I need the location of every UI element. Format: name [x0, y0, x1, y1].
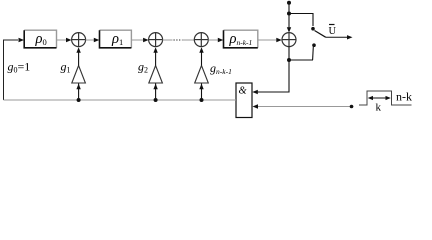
svg-text:U: U: [329, 26, 337, 37]
svg-text:g0=1: g0=1: [8, 60, 31, 75]
svg-text:n-k: n-k: [396, 90, 412, 104]
svg-text:&: &: [239, 86, 248, 97]
svg-text:k: k: [376, 102, 382, 114]
